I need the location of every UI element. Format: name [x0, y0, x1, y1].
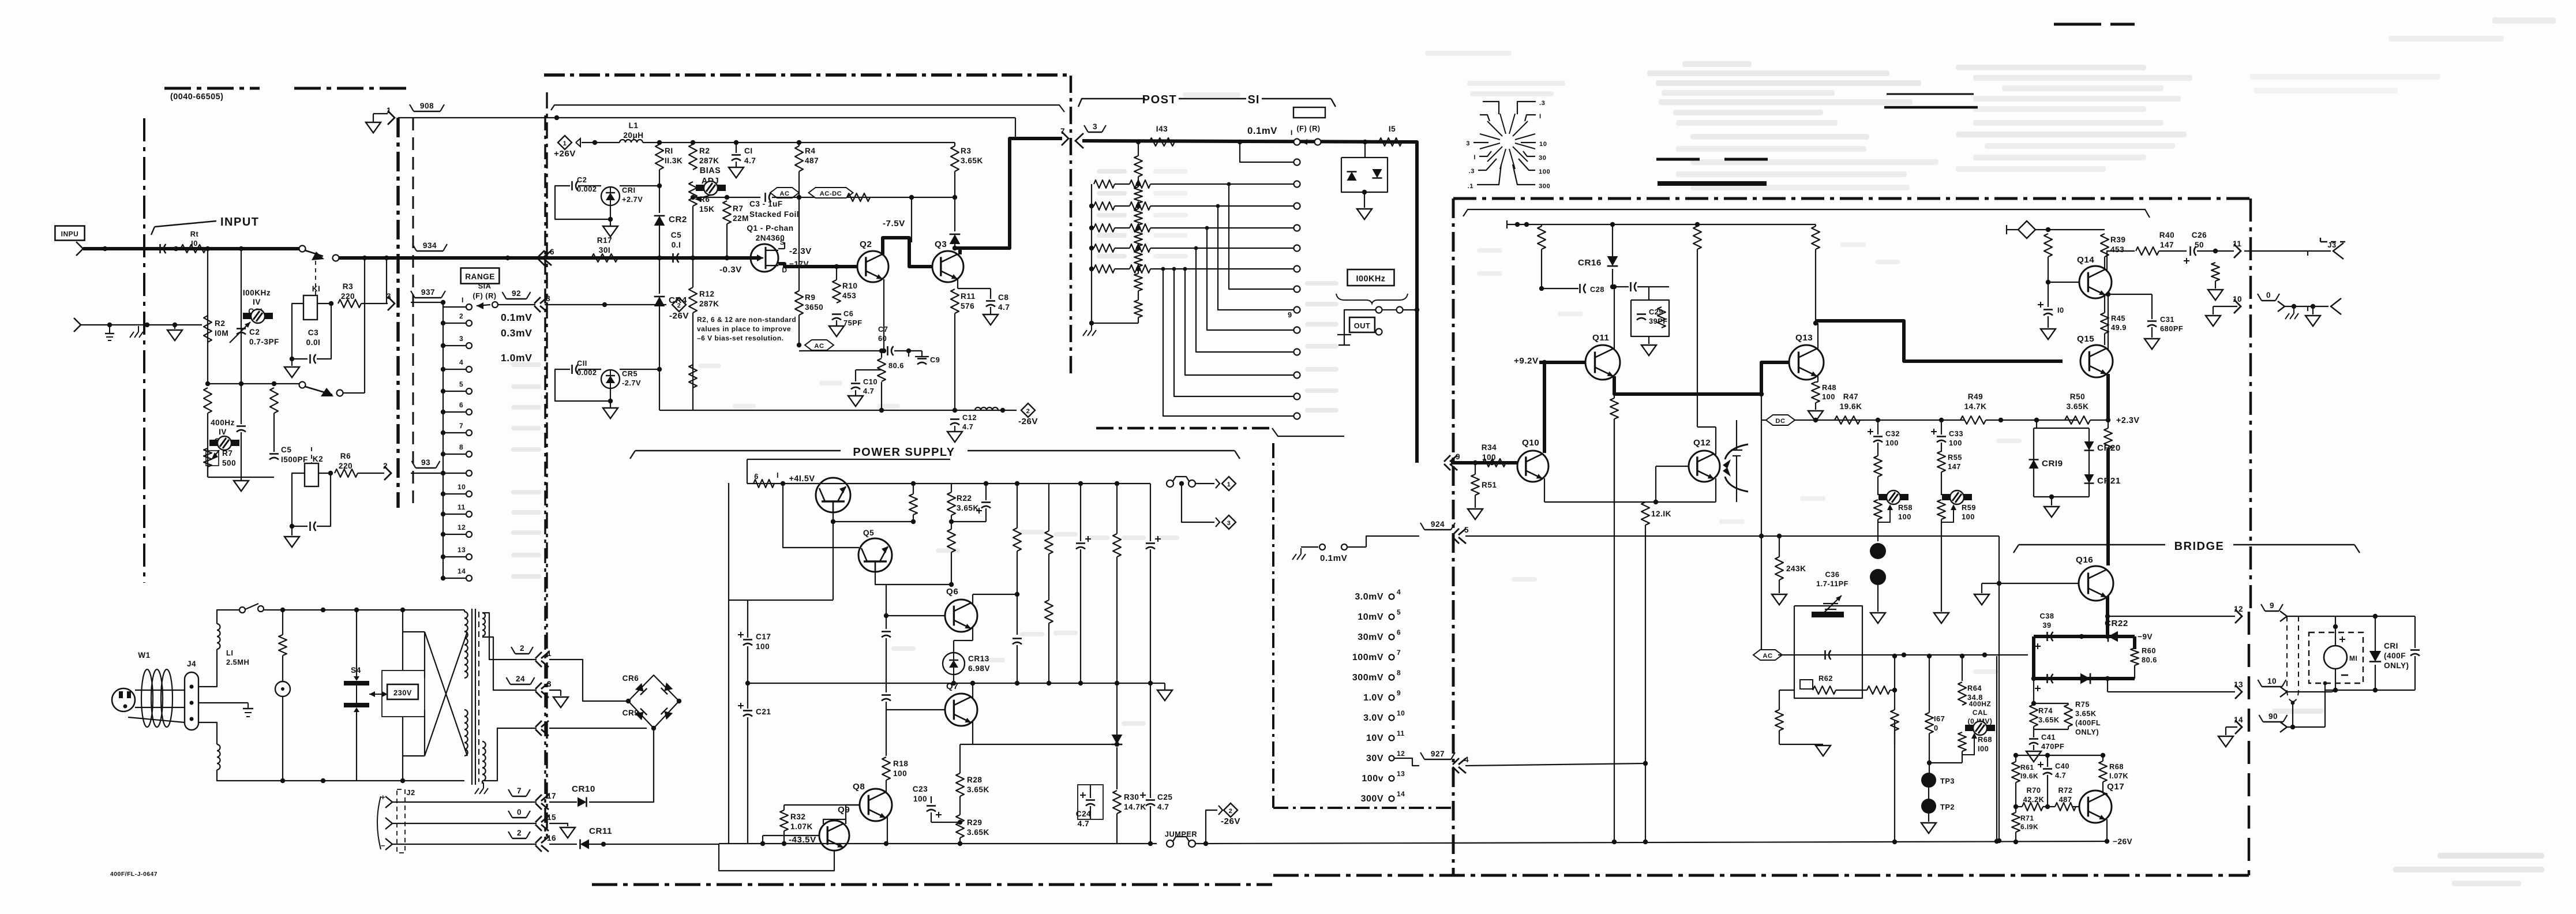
- pot R59 body: [1937, 500, 1945, 519]
- svg-text:Q17: Q17: [2107, 782, 2124, 792]
- wire Q14 base: [2048, 282, 2079, 283]
- svg-text:J2: J2: [406, 788, 415, 797]
- resistor R55 147: [1937, 451, 1945, 472]
- capacitor C7 60: [887, 346, 888, 355]
- S1A contact 3: [466, 343, 472, 349]
- jack pin 15: [541, 816, 549, 822]
- wire Q7 collector: [972, 683, 973, 698]
- wire 908 to amplifier: [398, 117, 1015, 118]
- wire staircase 10: [1207, 228, 1293, 330]
- OUT switch contacts: [1376, 307, 1382, 313]
- capacitor C10 4.7: [851, 383, 860, 384]
- S1A contact 6: [466, 409, 472, 415]
- svg-text:1.0mV: 1.0mV: [501, 352, 532, 364]
- svg-text:2: 2: [1229, 808, 1233, 815]
- svg-text:R74: R74: [2038, 706, 2053, 715]
- node +26V A: [657, 140, 662, 145]
- svg-text:CI: CI: [744, 147, 753, 155]
- relay K1 dashed link: [315, 261, 316, 295]
- adjust 100KHz cal: [243, 313, 273, 319]
- ground K2: [284, 537, 299, 547]
- BRIDGE header: [2019, 544, 2165, 545]
- wire R3 top: [954, 143, 955, 146]
- wire C29 gnd: [1648, 336, 1649, 344]
- wire C25: [1150, 683, 1151, 798]
- resistor R30 14.7K: [1113, 791, 1121, 814]
- wire Q15 emitter down: [2106, 374, 2110, 420]
- junction: [958, 841, 962, 846]
- svg-text:JUMPER: JUMPER: [1165, 830, 1197, 838]
- resistor R22b: [947, 529, 955, 552]
- junction: [651, 726, 656, 731]
- wire PS top rail: [747, 483, 1150, 484]
- capacitor PS mid2: [882, 694, 891, 696]
- node K1 R3: [329, 301, 333, 306]
- adjust 400Hz cal: [209, 440, 239, 446]
- svg-text:20μH: 20μH: [623, 131, 643, 140]
- resistor 243K: [1775, 557, 1783, 580]
- switch S4 bar top: [344, 681, 369, 685]
- wire R74 R75 net: [2034, 703, 2068, 704]
- svg-text:.1: .1: [1468, 183, 1473, 190]
- wire Q9 collector: [823, 819, 846, 824]
- svg-text:5: 5: [1397, 608, 1401, 616]
- resistor R29 3.65K: [956, 815, 964, 838]
- wire CR box top: [2036, 420, 2037, 428]
- capacitor C11 0.002: [571, 365, 573, 374]
- svg-text:30I: 30I: [599, 246, 610, 254]
- diode CR2: [654, 216, 665, 226]
- wire R71: [2015, 807, 2016, 812]
- svg-text:INPU: INPU: [61, 230, 79, 238]
- J2 brace: [377, 796, 381, 849]
- wire Q6 collector: [972, 594, 973, 604]
- wire r61 top: [2015, 755, 2016, 762]
- svg-text:CR6: CR6: [623, 674, 639, 683]
- wire CR10 right: [589, 728, 654, 802]
- svg-text:4.7: 4.7: [998, 303, 1010, 312]
- svg-text:I5: I5: [1389, 125, 1396, 133]
- junction: [1939, 418, 1944, 422]
- ground 10a: [2206, 316, 2221, 326]
- svg-text:7: 7: [1060, 127, 1065, 136]
- svg-text:12: 12: [458, 523, 466, 531]
- node Q1 drain: [834, 264, 839, 269]
- svg-text:4: 4: [459, 358, 463, 366]
- jack pin 1 xfmr: [541, 652, 549, 658]
- svg-text:C10: C10: [863, 377, 878, 386]
- resistor R2 287K: [689, 144, 697, 170]
- C17 plus: [738, 634, 744, 635]
- jack pin 4: [1458, 758, 1466, 765]
- capacitor C40 4.7: [2043, 768, 2052, 770]
- svg-text:1: 1: [547, 649, 552, 658]
- capacitor C6 75PF: [832, 313, 841, 315]
- diode CR21: [2084, 474, 2094, 484]
- svg-text:−9V: −9V: [2138, 632, 2153, 641]
- svg-text:3.0mV: 3.0mV: [1355, 592, 1383, 602]
- svg-text:400HZ: 400HZ: [1969, 700, 1992, 708]
- ladder top wire: [1138, 142, 1139, 156]
- wire ps i: [1048, 623, 1049, 683]
- svg-text:R55: R55: [1948, 453, 1962, 462]
- svg-text:30mV: 30mV: [1358, 632, 1383, 642]
- svg-text:C3: C3: [308, 328, 318, 337]
- svg-text:0.0I: 0.0I: [306, 338, 321, 347]
- svg-text:C8: C8: [998, 293, 1008, 302]
- wire bridge to jack: [549, 728, 647, 729]
- svg-text:BIAS: BIAS: [700, 166, 721, 175]
- svg-text:0.1mV: 0.1mV: [501, 312, 532, 323]
- 100KHz box: [1348, 269, 1394, 286]
- svg-text:100: 100: [1898, 512, 1911, 521]
- svg-text:100: 100: [756, 642, 770, 651]
- svg-text:Q8: Q8: [853, 782, 865, 792]
- junction: [290, 524, 294, 529]
- junction: [970, 681, 975, 685]
- resistor R71 6.19K: [2012, 812, 2020, 832]
- flag DC: [1766, 415, 1795, 425]
- svg-text:CII: CII: [577, 359, 587, 368]
- C21 plus: [738, 705, 744, 706]
- chassis ground on low bus: [138, 326, 139, 332]
- capacitor C2 0.002: [571, 181, 573, 190]
- transistor Q13: [1789, 345, 1824, 380]
- svg-text:AC: AC: [1763, 653, 1772, 660]
- wire K1 left loop: [292, 304, 308, 359]
- wire S4 up2: [356, 609, 357, 610]
- junction: [1524, 222, 1529, 227]
- junction: [1203, 841, 1208, 846]
- wire Q13 collector: [1817, 323, 1818, 349]
- INPUT section header: [155, 221, 216, 227]
- J3 jack fork: [2333, 243, 2343, 259]
- secondary lead 3: [482, 728, 537, 781]
- meter plus: [2339, 639, 2345, 640]
- wire OUT to main: [1403, 309, 1417, 310]
- cap10 plus: [2038, 304, 2043, 305]
- cap a plus: [976, 510, 982, 511]
- diamond 3 tick: [1216, 518, 1220, 527]
- pot R6 arrow: [698, 195, 711, 198]
- ground cap10: [2041, 329, 2056, 339]
- breakdown diode CR1 +2.7V: [601, 187, 620, 205]
- svg-text:2: 2: [459, 312, 463, 320]
- wire R62 down left: [1779, 690, 1794, 691]
- 100KHz brace: [1336, 294, 1408, 304]
- resistor below +2.3: [2104, 428, 2112, 449]
- resistor amp2 b: [1693, 226, 1701, 249]
- svg-text:KI: KI: [312, 284, 321, 293]
- wire staircase 11: [1196, 248, 1293, 352]
- power diamond 2 -26V amp: [1021, 403, 1035, 417]
- svg-text:7: 7: [517, 786, 522, 795]
- svg-text:1.0V: 1.0V: [1363, 693, 1383, 703]
- svg-text:400Hz: 400Hz: [211, 418, 235, 427]
- svg-text:I43: I43: [1156, 125, 1168, 133]
- svg-text:(400FL: (400FL: [2075, 718, 2101, 727]
- junction: [1542, 360, 1547, 365]
- inductor L1 lower half: [217, 744, 220, 770]
- ladder row 2 wire2: [1150, 205, 1293, 207]
- svg-text:-2.3V: -2.3V: [789, 246, 812, 256]
- wire Q3 emitter: [957, 279, 958, 289]
- svg-text:MI: MI: [2349, 654, 2357, 662]
- wire Q14 out: [2107, 251, 2135, 258]
- wire Q16 collector up: [2106, 449, 2110, 565]
- svg-text:Q14: Q14: [2077, 255, 2094, 265]
- wire 15 gnd: [549, 823, 568, 826]
- wire R32: [783, 805, 785, 810]
- flag AC fb: [1753, 650, 1782, 660]
- ladder row 1 wire: [1115, 183, 1130, 185]
- C36 adj bar: [1812, 612, 1844, 617]
- junction: [2311, 304, 2315, 309]
- transistor Q16: [2079, 566, 2113, 601]
- capacitor fb series: [1824, 650, 1826, 660]
- wire diode ps: [1116, 683, 1118, 735]
- svg-text:9: 9: [1397, 689, 1401, 697]
- svg-text:+: +: [381, 793, 385, 801]
- svg-text:C12: C12: [962, 413, 977, 422]
- svg-text:POST: POST: [1142, 93, 1177, 106]
- junction: [1148, 841, 1153, 846]
- S1A contact 7: [466, 430, 472, 436]
- ground CR1: [603, 226, 618, 237]
- S1 contact col 6: [1294, 245, 1300, 252]
- test point dot B: [1870, 569, 1886, 585]
- capacitor C38 39: [2046, 632, 2048, 641]
- wire R6 bottom: [692, 206, 693, 258]
- wire J4 top to L1: [198, 649, 217, 687]
- svg-text:3: 3: [459, 335, 463, 343]
- bridge diamond wires: [628, 675, 679, 728]
- resistor R39 453: [2101, 234, 2109, 257]
- wire R74 top: [2033, 679, 2034, 703]
- bus top: [441, 300, 445, 305]
- svg-text:7: 7: [459, 422, 463, 430]
- svg-text:C33: C33: [1949, 429, 1963, 438]
- svg-text:I67: I67: [1934, 714, 1945, 723]
- svg-text:100: 100: [1885, 439, 1899, 447]
- svg-text:Q5: Q5: [863, 529, 874, 537]
- resistor R50 3.65K: [2065, 416, 2090, 424]
- capacitor C31 680PF: [2147, 320, 2157, 322]
- wire CR16 down: [1612, 269, 1613, 287]
- junction: [1902, 653, 1906, 657]
- resistor R72 487: [2055, 803, 2076, 811]
- svg-text:C32: C32: [1885, 429, 1900, 438]
- ground R59: [1934, 613, 1949, 623]
- svg-text:90: 90: [2268, 712, 2278, 721]
- wire bridge bottom: [653, 728, 654, 729]
- svg-text:AC: AC: [814, 343, 824, 350]
- wire R2 column: [207, 249, 208, 384]
- wire 934 bus: [545, 256, 757, 260]
- svg-text:19.6K: 19.6K: [1840, 402, 1862, 411]
- transformer secondary bottom: [482, 741, 486, 781]
- wire 10 right: [2278, 301, 2285, 312]
- wire CR1 meter: [2375, 616, 2376, 651]
- svg-text:49.9: 49.9: [2111, 323, 2127, 332]
- wire bias to AC-DC: [772, 197, 955, 198]
- wire Q6 base: [886, 615, 945, 616]
- svg-text:576: 576: [961, 302, 974, 310]
- svg-text:14: 14: [1397, 790, 1405, 798]
- wire 0.1mV to 924: [1366, 536, 1419, 547]
- wire R7 bottom: [207, 467, 208, 477]
- svg-text:Q9: Q9: [838, 805, 850, 815]
- resistor PS c: [1013, 528, 1021, 551]
- svg-text:80.6: 80.6: [888, 361, 904, 370]
- wire S1A contact 14: [443, 578, 466, 579]
- wire Q17 base: [2072, 806, 2079, 807]
- ladder series res 0: [1134, 187, 1142, 203]
- ladder row 4 wire2: [1150, 248, 1293, 249]
- wire c2 to cr1: [578, 185, 601, 186]
- S1 contact col 13: [1294, 394, 1300, 400]
- resistor divider low B: [270, 388, 278, 413]
- earth ground on low bus: [109, 325, 110, 334]
- wire J4 mid ground: [198, 702, 248, 703]
- svg-text:12: 12: [1397, 750, 1405, 758]
- wire +9.2V to Q11 base: [1539, 361, 1585, 364]
- ground PS mid: [1157, 690, 1172, 701]
- junction: [290, 357, 294, 361]
- jack pin 9: [1450, 455, 1457, 462]
- svg-text:30V: 30V: [1366, 754, 1383, 763]
- test point TP3: [1921, 773, 1936, 788]
- switch S2b contact: [299, 382, 306, 388]
- S1 contact col 2: [1294, 159, 1300, 166]
- svg-text:R28: R28: [967, 776, 982, 784]
- svg-text:3.65K: 3.65K: [2075, 709, 2097, 718]
- wire amp2 top rail: [1507, 224, 1816, 225]
- wire R4 top: [798, 143, 800, 146]
- svg-text:values in place to improve: values in place to improve: [697, 325, 791, 333]
- wire trr down: [2048, 257, 2049, 282]
- svg-text:Q6: Q6: [946, 587, 958, 597]
- wire r50 node down: [2108, 420, 2109, 428]
- svg-text:+26V: +26V: [554, 149, 576, 159]
- wire jumper right: [1195, 843, 1206, 844]
- wires W1 to J4: [135, 690, 185, 691]
- wire Q16 base: [1999, 583, 2079, 584]
- wire S1A contact 12: [443, 534, 466, 535]
- wire fuse branch: [282, 610, 283, 635]
- junction: [1490, 460, 1494, 465]
- svg-text:3.0V: 3.0V: [1363, 713, 1383, 723]
- wire R3 to plug 3: [361, 303, 388, 304]
- svg-text:17: 17: [547, 792, 556, 800]
- junction: [1148, 681, 1153, 685]
- transistor Q6: [945, 600, 977, 632]
- wire R28 top: [960, 744, 973, 745]
- POWER SUPPLY header: [635, 450, 841, 451]
- svg-text:R40: R40: [2159, 231, 2174, 239]
- svg-text:10: 10: [1397, 709, 1405, 717]
- wire C32: [1877, 420, 1878, 434]
- svg-text:AC: AC: [779, 190, 789, 197]
- svg-text:DC: DC: [1775, 418, 1785, 425]
- svg-text:14.7K: 14.7K: [1124, 803, 1146, 811]
- wire Q11 emitter to Q13: [1614, 362, 1789, 394]
- junction: [984, 481, 988, 486]
- wire Q11 emitter res: [1610, 398, 1618, 419]
- wire PS outline top: [747, 459, 950, 460]
- svg-text:6: 6: [459, 401, 463, 409]
- junction: [1115, 481, 1119, 486]
- wire out res gnd: [2215, 281, 2216, 289]
- diode CR1 meter: [2369, 651, 2381, 662]
- svg-text:453: 453: [842, 291, 856, 300]
- wire cap divider leads: [241, 384, 242, 424]
- wire C24: [1090, 785, 1091, 798]
- ladder top res: [1134, 156, 1142, 177]
- test point dot A: [1870, 543, 1886, 559]
- ground fb: [1816, 746, 1831, 756]
- svg-text:3: 3: [387, 292, 391, 301]
- meter M1 circle: [2324, 646, 2347, 669]
- plug pin 10: [2234, 299, 2241, 313]
- resistor R2 10M: [204, 316, 212, 342]
- power diamond top right: [2018, 221, 2035, 238]
- S1 contact col 14: [1294, 413, 1300, 419]
- wire diode branch: [1364, 142, 1366, 158]
- S1A wiper arrow: [477, 305, 490, 306]
- junction: [321, 608, 325, 612]
- relay K1 coil box: [303, 295, 317, 320]
- wire divider gnd lead: [241, 477, 242, 481]
- svg-text:30: 30: [1539, 155, 1546, 162]
- svg-text:I00: I00: [1978, 744, 1989, 753]
- wire 937 to range bus: [411, 302, 443, 303]
- wire S1A contact 3: [443, 345, 466, 346]
- svg-text:3: 3: [1466, 140, 1470, 147]
- svg-text:3.65K: 3.65K: [967, 785, 989, 794]
- wire CR5 gnd: [610, 401, 611, 408]
- svg-text:1: 1: [1227, 481, 1231, 488]
- svg-text:3.65K: 3.65K: [2038, 716, 2060, 724]
- relay K2 coil box: [305, 463, 318, 486]
- switch S2a wiper arrow: [312, 252, 324, 260]
- svg-text:2: 2: [383, 462, 388, 470]
- svg-text:220: 220: [341, 292, 355, 301]
- wire bridge bottom: [2034, 677, 2135, 680]
- resistor R13 low: [689, 365, 697, 388]
- wire C10: [855, 370, 856, 381]
- S1A contact 2: [466, 320, 472, 326]
- svg-text:C31: C31: [2160, 315, 2174, 324]
- ladder bottom wires: [1138, 269, 1139, 274]
- svg-text:AC-DC: AC-DC: [820, 190, 842, 197]
- post board bottom border: [1096, 427, 1272, 430]
- wire CR1 leads: [610, 205, 611, 219]
- diamond 1 tick: [576, 138, 580, 147]
- wire S2b to column: [343, 392, 365, 394]
- wire staircase 8: [1229, 184, 1293, 289]
- wire divider bottom row: [208, 477, 274, 478]
- switch S2b arrow: [321, 388, 333, 396]
- wire Q8 base: [846, 804, 860, 806]
- diamond 2 tick: [1218, 806, 1223, 815]
- svg-text:C23: C23: [913, 785, 928, 793]
- svg-text:24: 24: [516, 675, 525, 683]
- svg-text:RANGE: RANGE: [465, 272, 495, 281]
- transistor Q11: [1585, 345, 1620, 380]
- diode PS: [1112, 735, 1123, 744]
- jack pin 17: [541, 795, 549, 801]
